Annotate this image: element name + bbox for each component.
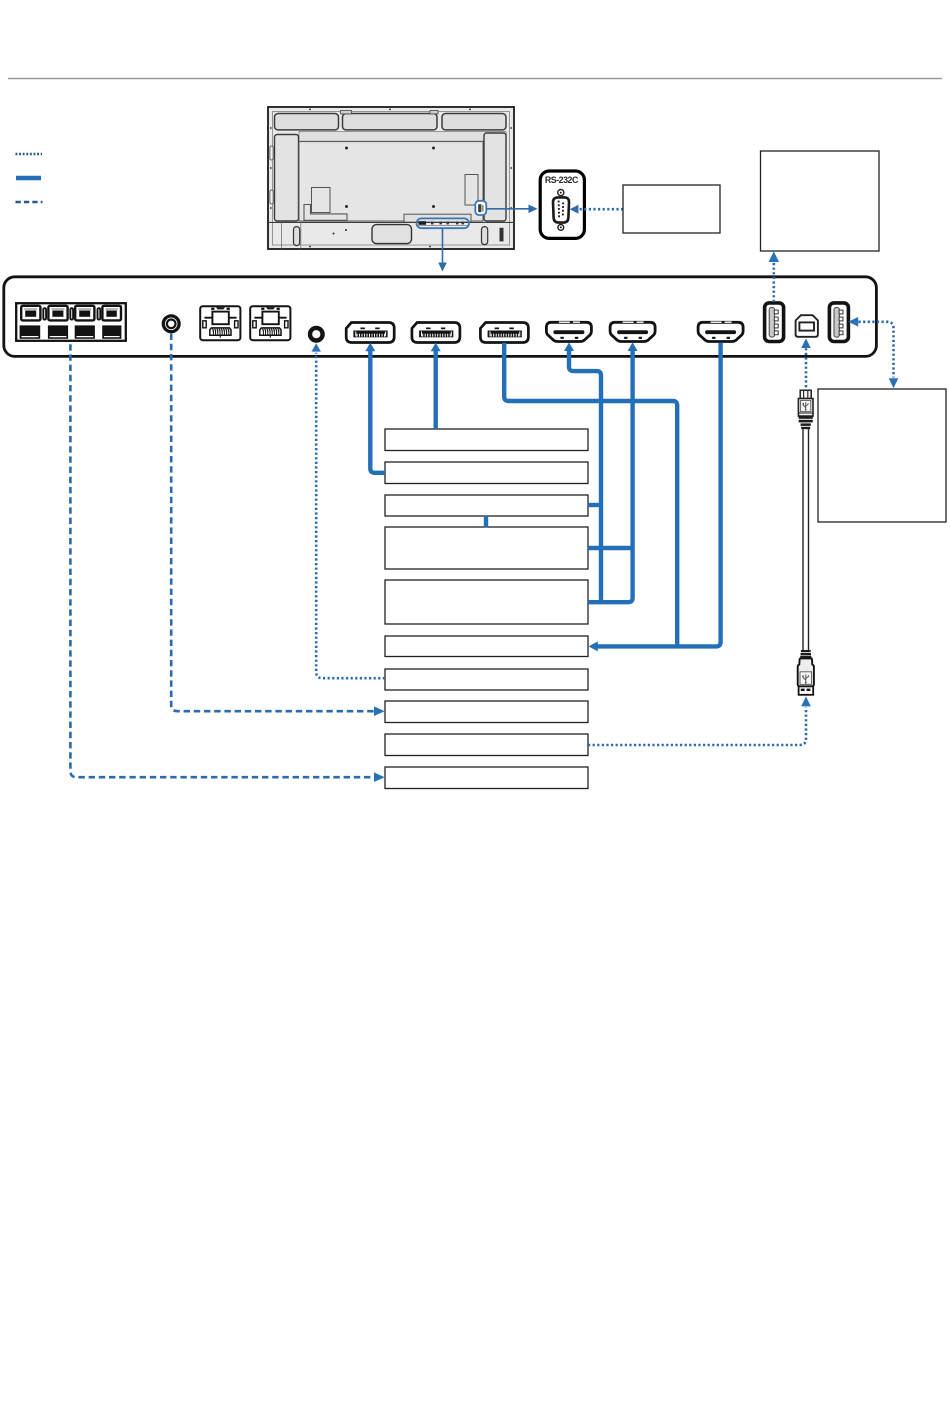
wire HDMI2 down to box5: [588, 350, 633, 603]
monitor connector strip marks: [419, 221, 427, 225]
RS-232C bottom screw: [558, 225, 564, 231]
wire stub to box4: [588, 546, 633, 550]
DisplayPort 1: [346, 323, 394, 343]
USB-B plug body: [798, 399, 813, 417]
RS-232C DB9 connector body: [553, 197, 569, 222]
HDMI 2: [610, 322, 655, 342]
monitor divider band under vents: [299, 132, 506, 142]
arrowhead up into USB-B port: [801, 338, 811, 348]
wire HDMI1 feed down: [569, 350, 601, 603]
USB-A port 1: [765, 303, 784, 342]
USB-A plug body: [798, 658, 814, 686]
label box 5: [385, 580, 588, 624]
USB-A plug collar: [801, 650, 811, 652]
HDMI 3: [698, 322, 743, 342]
dotted wire USB-B down to cable: [805, 348, 808, 388]
monitor bottom small dark connector: [500, 228, 504, 242]
monitor top vent 2: [343, 114, 438, 130]
USB-B plug collar: [799, 416, 813, 419]
monitor antenna tabs on top band: [341, 111, 352, 114]
quad modular jack block: [16, 303, 126, 341]
arrowhead up into label box B: [769, 251, 779, 262]
label box 1: [385, 429, 588, 451]
monitor bottom band vertical seams: [281, 222, 283, 248]
dashed wire audio jack to box8: [171, 334, 374, 712]
top horizontal rule: [8, 78, 942, 80]
USB trident on B plug: [803, 402, 808, 409]
top small empty rectangle (label box A): [623, 185, 720, 233]
USB-A port 2: [829, 303, 848, 342]
monitor L-shaped step: [304, 205, 347, 221]
label box 2: [385, 462, 588, 484]
dashed and dotted connection lines: [70, 262, 893, 777]
monitor bottom left slot: [294, 227, 300, 246]
label box 10: [385, 767, 588, 789]
DisplayPort 2: [412, 323, 460, 343]
top right large empty rectangle (label box B): [761, 151, 880, 251]
arrowhead into DP1: [365, 343, 375, 352]
blue callout around RS-232C port on monitor: [475, 201, 486, 215]
dotted wire box9 to USB cable end: [588, 707, 806, 745]
monitor bottom handle: [372, 225, 412, 244]
arrowhead down into label box C: [889, 378, 899, 388]
arrow monitor to RS-232C box: [487, 208, 530, 210]
legend dotted line: [16, 153, 43, 156]
monitor right side panel: [484, 133, 506, 221]
arrowhead into DP2: [431, 343, 441, 352]
monitor outer body: [268, 107, 514, 249]
wire DP1 to box2: [370, 350, 385, 473]
legend solid line: [16, 176, 41, 181]
blue stadium callout around bottom connector strip: [417, 218, 470, 228]
dashed wire quad jack to box10: [70, 344, 374, 777]
arrow monitor strip down to panel: [442, 228, 444, 262]
USB cable drawing: [798, 390, 814, 695]
dotted line from label box A to RS-232C with arrow: [570, 205, 579, 214]
arrowhead left into USB-A2: [848, 317, 858, 327]
arrowhead into HDMI2: [628, 342, 638, 351]
label box 4: [385, 527, 588, 569]
monitor rear view illustration: [268, 107, 538, 272]
RS-232C callout box: [540, 171, 584, 238]
wire stub to box3: [588, 503, 601, 507]
wire DP2 to box1: [434, 350, 438, 430]
audio jack: [163, 316, 179, 332]
RS-232C DB9 pins: [558, 201, 564, 218]
arrowhead into box10: [374, 772, 385, 782]
wire DP3 down right and to box6 junction: [504, 343, 677, 647]
arrowhead up into IR jack: [312, 343, 321, 351]
LAN port 2: [250, 306, 290, 340]
monitor frame screws left strip: [270, 146, 273, 160]
remote IR jack: [310, 328, 323, 341]
monitor bottom band screw dots: [333, 233, 335, 235]
USB trident on A plug: [803, 674, 809, 682]
monitor screw dots: [270, 108, 512, 247]
LAN port 1: [200, 306, 240, 340]
USB-A metal shell: [799, 686, 814, 694]
monitor top vent 1: [275, 114, 339, 130]
monitor inner frame line: [273, 112, 510, 246]
monitor label plate: [312, 188, 331, 213]
monitor top vent 3: [442, 114, 506, 130]
monitor bottom-right bar: [404, 214, 471, 222]
monitor left side panel: [275, 135, 299, 222]
arrowhead into HDMI1: [564, 342, 574, 351]
arrowhead into box8: [374, 706, 385, 716]
monitor right notch bar: [465, 175, 478, 206]
USB-B plug tip: [800, 390, 811, 398]
dotted wire USB-A2 to label box C: [859, 322, 894, 378]
label box 9: [385, 734, 588, 756]
middle label boxes column: [385, 429, 588, 789]
RS-232C top screw: [558, 190, 564, 196]
svg-text:RS-232C: RS-232C: [545, 175, 579, 185]
dotted wire box7 to IR jack: [316, 353, 385, 678]
monitor bottom band divider: [268, 221, 514, 223]
monitor main back panel: [299, 142, 483, 221]
arrowhead up into USB cable end: [801, 696, 811, 706]
legend dashed line: [16, 201, 43, 204]
arrowhead into box6: [589, 641, 598, 651]
label box 8: [385, 701, 588, 723]
DisplayPort 3: [480, 323, 528, 343]
HDMI 1: [546, 322, 591, 342]
blue wiring: [365, 342, 720, 651]
wire link box3 to box4: [484, 516, 488, 527]
label box 6: [385, 636, 588, 657]
label box 7: [385, 669, 588, 690]
cable: [802, 429, 804, 650]
monitor bottom right slot: [482, 227, 488, 245]
connector panel strip: [4, 277, 877, 357]
dotted wire USB-A1 up to label box B: [772, 262, 775, 302]
right middle empty rectangle (label box C): [818, 389, 946, 522]
label box 3: [385, 495, 588, 516]
USB-B port: [796, 315, 818, 337]
wire HDMI3 down to box6 arrow: [598, 343, 721, 647]
